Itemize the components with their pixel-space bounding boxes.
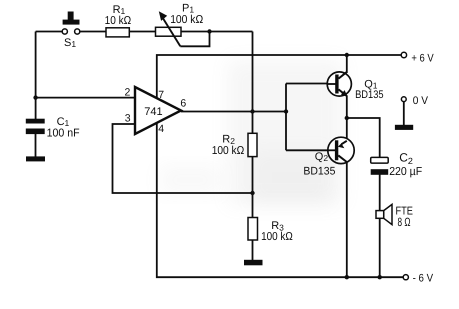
- node bottom rail Q2: [345, 275, 349, 279]
- wire P1 wiper: [180, 32, 209, 47]
- svg-text:100 kΩ: 100 kΩ: [170, 14, 203, 26]
- wire C2 to speaker: [379, 174, 381, 211]
- wire Q1 collector: [346, 55, 348, 73]
- svg-text:741: 741: [144, 106, 162, 118]
- node output/R2: [250, 109, 254, 113]
- wire Q1 base: [286, 83, 336, 85]
- speaker FTE: [376, 204, 392, 224]
- svg-text:0 V: 0 V: [413, 95, 429, 107]
- pushbutton S1: [62, 12, 80, 35]
- svg-text:C1: C1: [57, 116, 70, 128]
- svg-text:- 6 V: - 6 V: [413, 272, 434, 284]
- wire S1 to R1: [80, 31, 106, 33]
- wire pin 2: [36, 97, 136, 99]
- resistor R1: [106, 28, 129, 37]
- node R2 bottom tee: [250, 191, 254, 195]
- wire pin 3: [113, 124, 253, 193]
- svg-text:+ 6 V: + 6 V: [411, 53, 434, 65]
- capacitor C2: [371, 157, 389, 174]
- wire R1 to P1: [130, 31, 156, 33]
- wire Q2 emitter up: [346, 118, 348, 139]
- svg-text:10 kΩ: 10 kΩ: [105, 15, 132, 27]
- wire top-left from left rail to S1: [36, 31, 63, 33]
- resistor R3: [248, 218, 258, 241]
- potentiometer P1: [156, 11, 182, 46]
- transistor Q2 BD135: [328, 137, 354, 163]
- svg-text:2: 2: [125, 87, 131, 99]
- wire vertical to output node: [252, 32, 254, 261]
- svg-text:100 nF: 100 nF: [47, 128, 80, 140]
- ground R3: [244, 260, 263, 266]
- svg-text:3: 3: [125, 112, 131, 124]
- resistor R2: [248, 133, 257, 156]
- ground 0V bar: [395, 125, 413, 130]
- svg-text:8 Ω: 8 Ω: [398, 215, 411, 229]
- svg-text:P1: P1: [182, 2, 194, 14]
- wire bases vertical: [285, 84, 287, 151]
- ground C1: [26, 156, 45, 161]
- svg-text:C2: C2: [399, 151, 413, 167]
- node bottom rail speaker: [378, 275, 382, 279]
- svg-text:BD135: BD135: [303, 166, 335, 178]
- wire speaker to bottom rail: [379, 218, 381, 277]
- transistor Q1 BD135: [327, 72, 351, 97]
- svg-text:BD135: BD135: [355, 89, 384, 101]
- svg-text:4: 4: [158, 123, 164, 135]
- wire Q1 emitter to node: [346, 96, 348, 119]
- node pin2 tee: [33, 95, 37, 99]
- wire pin 4 down and bottom rail: [157, 123, 403, 277]
- terminal 0V: [401, 97, 406, 125]
- svg-text:7: 7: [158, 89, 164, 101]
- svg-text:S1: S1: [64, 37, 76, 49]
- wire Q2 collector down: [346, 162, 348, 277]
- terminal -6V: [403, 275, 408, 280]
- svg-text:6: 6: [180, 98, 186, 110]
- wire midpoint to C2: [347, 118, 380, 158]
- node Q1/Q2 midpoint: [345, 116, 349, 120]
- wire top P1 to corner: [181, 31, 253, 33]
- wire Q2 base: [286, 149, 335, 151]
- svg-text:100 kΩ: 100 kΩ: [261, 231, 293, 243]
- wire pin 6 output: [181, 111, 286, 113]
- node +6V rail tee: [345, 53, 349, 57]
- wire pin 7 to +6V rail: [157, 55, 401, 98]
- node output/base tee: [284, 109, 288, 113]
- terminal +6V: [401, 52, 406, 57]
- capacitor C1: [26, 119, 45, 157]
- op-amp U1 741: [135, 87, 181, 134]
- node wiper junction: [207, 29, 211, 33]
- svg-text:220 µF: 220 µF: [389, 166, 422, 178]
- svg-text:100 kΩ: 100 kΩ: [212, 145, 245, 157]
- svg-text:Q2: Q2: [315, 151, 329, 163]
- wire left rail vertical: [35, 32, 37, 121]
